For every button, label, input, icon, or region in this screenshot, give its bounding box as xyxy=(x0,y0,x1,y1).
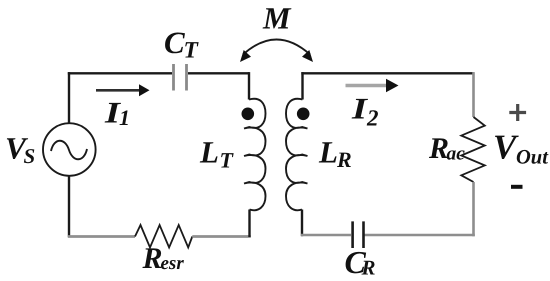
svg-text:L: L xyxy=(318,135,338,170)
svg-text:L: L xyxy=(199,135,219,170)
svg-text:ac: ac xyxy=(447,144,466,165)
current arrow I2 xyxy=(346,84,388,87)
M arc right arrowhead xyxy=(302,50,313,62)
wire: right loop left side bottom (below L_R) xyxy=(301,210,303,237)
svg-text:M: M xyxy=(262,1,292,36)
inductor L_T coil xyxy=(244,99,266,210)
wire: right loop right side upper (grey) xyxy=(472,72,475,117)
svg-text:C: C xyxy=(164,25,185,60)
wire: right loop top xyxy=(301,72,473,74)
M arc left arrowhead xyxy=(240,50,251,62)
svg-text:T: T xyxy=(184,38,200,64)
mutual inductance arc M xyxy=(243,40,310,55)
wire: right loop right side lower (grey) xyxy=(472,182,475,236)
svg-text:2: 2 xyxy=(366,106,379,131)
resistor R_esr zigzag xyxy=(135,225,192,248)
capacitor C_R plates xyxy=(353,221,364,248)
wire: right loop left side top (above L_R) xyxy=(301,72,303,99)
svg-text:Out: Out xyxy=(516,147,549,169)
wire: left loop right side top (above L_T) xyxy=(248,72,250,99)
svg-text:R: R xyxy=(142,242,163,275)
svg-text:R: R xyxy=(336,147,352,172)
wire: left loop top segment right of CT xyxy=(188,72,249,74)
svg-text:esr: esr xyxy=(161,253,185,274)
polarity dot (L_R) xyxy=(297,108,310,121)
source V_S circle xyxy=(43,123,96,176)
wire: left loop bottom left of Resr xyxy=(68,235,135,238)
output - terminal xyxy=(511,185,523,189)
svg-text:1: 1 xyxy=(119,105,130,130)
wire: left loop left side lower xyxy=(68,176,70,237)
capacitor C_T plates xyxy=(174,64,187,91)
source V_S sine wave xyxy=(51,141,87,160)
polarity dot (L_T) xyxy=(242,108,255,121)
current arrow I1 xyxy=(96,89,141,92)
svg-text:S: S xyxy=(24,144,36,168)
resistor R_ac zigzag xyxy=(461,117,485,182)
svg-text:I: I xyxy=(351,93,369,126)
output + terminal xyxy=(509,104,526,121)
inductor L_R coil xyxy=(286,99,308,210)
wire: left loop bottom right of Resr xyxy=(192,235,251,238)
svg-text:T: T xyxy=(220,148,235,173)
wire: left loop top segment left of CT xyxy=(68,72,172,74)
svg-text:R: R xyxy=(361,256,376,280)
wire: left loop right side bottom (below L_T) xyxy=(248,210,250,238)
wire: left loop left side upper xyxy=(68,72,70,123)
wire: right loop bottom right of CR (grey) xyxy=(365,234,475,237)
wire: right loop bottom left of CR (grey) xyxy=(301,234,352,237)
